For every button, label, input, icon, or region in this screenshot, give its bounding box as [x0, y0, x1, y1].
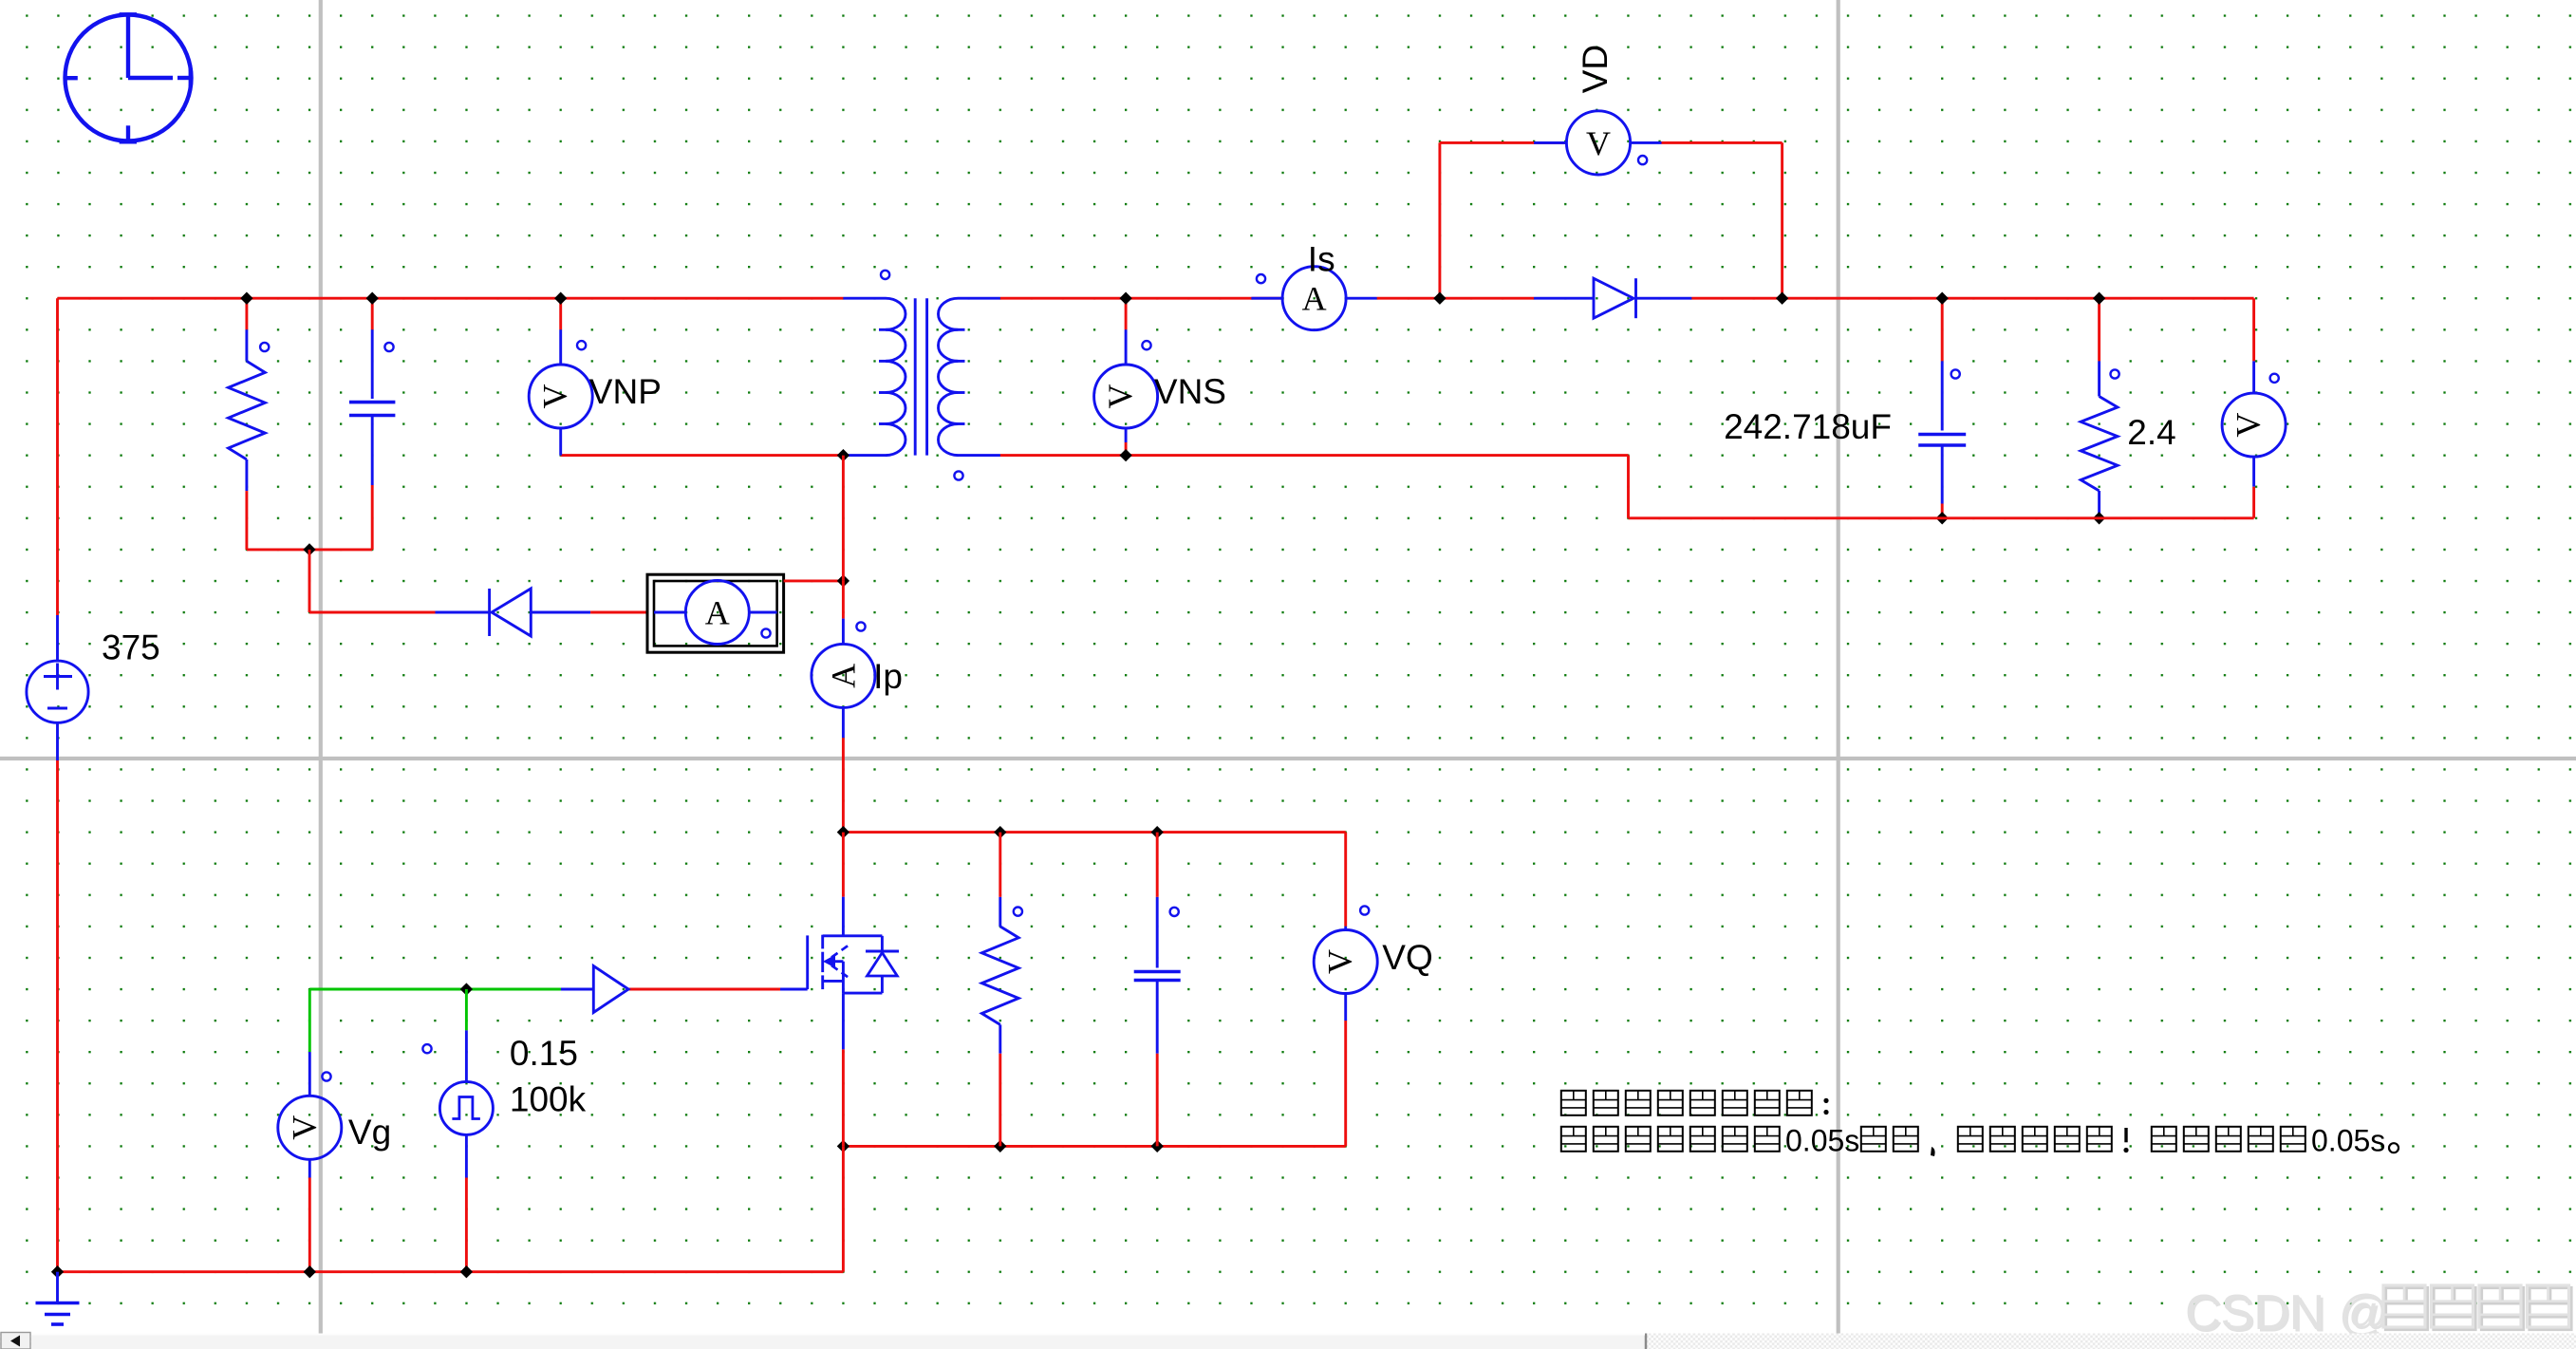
svg-text:V: V: [285, 1115, 323, 1140]
svg-text:VNP: VNP: [589, 372, 662, 411]
svg-text:Is: Is: [1308, 239, 1335, 278]
svg-text:Ip: Ip: [873, 657, 903, 696]
svg-text:Vg: Vg: [348, 1113, 391, 1152]
svg-text:VQ: VQ: [1382, 938, 1432, 977]
svg-text:V: V: [1101, 384, 1139, 409]
svg-text:0.05s: 0.05s: [2311, 1124, 2385, 1158]
svg-text:0.05s: 0.05s: [1785, 1124, 1859, 1158]
svg-text:V: V: [1321, 949, 1359, 974]
svg-text:V: V: [536, 384, 574, 409]
svg-text:VD: VD: [1576, 45, 1615, 93]
svg-text:A: A: [705, 594, 730, 632]
svg-text:VNS: VNS: [1154, 372, 1226, 411]
svg-text:2.4: 2.4: [2127, 413, 2175, 452]
svg-text:A: A: [1302, 280, 1327, 318]
svg-text:A: A: [824, 664, 862, 688]
svg-text:V: V: [1586, 124, 1611, 162]
svg-text:100k: 100k: [510, 1079, 587, 1118]
svg-text:V: V: [2230, 413, 2268, 438]
svg-text:375: 375: [102, 628, 160, 667]
svg-text:0.15: 0.15: [510, 1034, 578, 1073]
svg-text:242.718uF: 242.718uF: [1724, 407, 1892, 446]
svg-text:CSDN @: CSDN @: [2185, 1285, 2389, 1340]
